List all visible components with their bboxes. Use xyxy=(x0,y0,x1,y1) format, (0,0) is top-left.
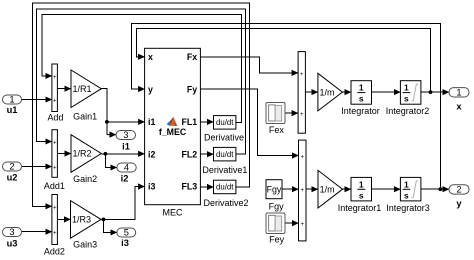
integrator Integrator xyxy=(341,81,380,116)
svg-text:u1: u1 xyxy=(7,105,18,115)
wire feedback Derivative to Add (inner loop) xyxy=(42,15,242,123)
svg-text:3: 3 xyxy=(9,227,14,237)
wire branch to outport 3 xyxy=(107,134,116,136)
svg-text:Derivative: Derivative xyxy=(204,133,244,143)
derivative Derivative1 xyxy=(202,147,247,174)
wire u3 to Add2 xyxy=(22,231,52,233)
wire MEC Fx to Add3 xyxy=(200,57,295,73)
svg-text:i3: i3 xyxy=(121,238,129,248)
svg-text:FL2: FL2 xyxy=(182,149,198,159)
wire feedback Derivative1 to Add1 (middle loop) xyxy=(36,9,245,154)
svg-text:1/m: 1/m xyxy=(320,87,335,97)
svg-text:i3: i3 xyxy=(148,182,155,192)
MATLAB function block MEC xyxy=(145,48,201,217)
wire Add2 to Gain3 xyxy=(57,218,70,220)
svg-text:du/dt: du/dt xyxy=(216,150,234,159)
svg-text:s: s xyxy=(359,190,364,200)
svg-text:3: 3 xyxy=(123,130,128,140)
step block Fex xyxy=(266,103,285,136)
svg-text:1: 1 xyxy=(9,95,14,105)
svg-text:Fgy: Fgy xyxy=(267,185,282,195)
svg-text:+: + xyxy=(300,112,304,118)
svg-text:Integrator1: Integrator1 xyxy=(338,203,382,213)
adder Add4 (y channel sum) xyxy=(299,140,307,241)
wire u2 to Add1 xyxy=(22,166,52,168)
gain 1/m (x channel) xyxy=(318,73,343,111)
wire u1 to Add xyxy=(22,99,52,101)
svg-text:Add: Add xyxy=(47,112,63,122)
wire Gain3 output to MEC i3 xyxy=(101,187,138,233)
svg-text:FL3: FL3 xyxy=(182,182,198,192)
svg-text:1: 1 xyxy=(359,179,364,189)
wire feedback x output to MEC x input xyxy=(137,29,431,93)
wire Add to Gain1 xyxy=(57,88,71,90)
svg-text:x: x xyxy=(148,52,153,62)
wire Integrator3 to outport 2 xyxy=(421,188,449,190)
svg-text:1/R2: 1/R2 xyxy=(73,149,92,159)
wire arrow into Add in1 xyxy=(45,75,52,77)
svg-text:Integrator2: Integrator2 xyxy=(386,106,430,116)
svg-text:Derivative1: Derivative1 xyxy=(202,165,247,175)
svg-text:Add1: Add1 xyxy=(44,181,65,191)
svg-text:f_MEC: f_MEC xyxy=(159,127,187,137)
wire Fey to Add4 xyxy=(285,222,299,224)
wire Integrator1 to Integrator3 xyxy=(372,188,401,190)
svg-text:+: + xyxy=(301,155,305,161)
svg-text:+: + xyxy=(53,205,57,211)
svg-text:1: 1 xyxy=(359,83,364,93)
svg-text:y: y xyxy=(148,84,153,94)
wire Fex to Add3 xyxy=(285,112,298,114)
svg-text:Fy: Fy xyxy=(187,84,197,94)
gain Gain2 1/R2 xyxy=(71,135,101,184)
wire Fgy to Add4 xyxy=(282,188,299,190)
outport 2 (y) xyxy=(449,185,469,209)
svg-text:s: s xyxy=(404,94,409,104)
svg-text:du/dt: du/dt xyxy=(216,183,234,192)
wire MEC FL1 to Derivative xyxy=(200,121,213,123)
outport 3 (i1) xyxy=(116,130,136,151)
svg-text:+: + xyxy=(53,75,57,81)
wire Gain 1/m 2 to Integrator1 xyxy=(343,188,352,190)
derivative Derivative xyxy=(204,116,244,143)
integrator Integrator3 (limited) xyxy=(386,177,430,213)
adder Add xyxy=(47,64,63,122)
wire Add1 to Gain2 xyxy=(57,153,71,155)
MATLAB logo icon xyxy=(167,117,178,126)
svg-text:5: 5 xyxy=(124,228,129,238)
svg-text:u3: u3 xyxy=(7,238,18,248)
wire feedback Derivative2 to Add2 (outer loop) xyxy=(32,3,249,206)
svg-text:+: + xyxy=(301,188,305,194)
wire arrow into MEC x port xyxy=(138,56,145,58)
adder Add3 (x channel sum) xyxy=(298,52,305,134)
integrator Integrator1 xyxy=(338,177,382,213)
svg-text:s: s xyxy=(359,94,364,104)
svg-text:2: 2 xyxy=(9,162,14,172)
svg-text:1/R3: 1/R3 xyxy=(72,215,91,225)
svg-text:Integrator3: Integrator3 xyxy=(386,203,430,213)
svg-text:Fx: Fx xyxy=(187,52,197,62)
node junction i2 xyxy=(104,152,108,156)
svg-text:u2: u2 xyxy=(7,172,18,182)
svg-text:x: x xyxy=(456,102,462,112)
svg-text:i2: i2 xyxy=(121,173,129,183)
svg-text:Fey: Fey xyxy=(269,235,285,245)
svg-text:+: + xyxy=(53,231,57,237)
integrator Integrator2 (limited) xyxy=(386,81,430,116)
wire Gain1 output to MEC i1 xyxy=(101,89,138,135)
inport 1 xyxy=(3,95,22,115)
svg-text:1: 1 xyxy=(404,83,409,93)
svg-text:Integrator: Integrator xyxy=(341,106,380,116)
svg-text:Fgy: Fgy xyxy=(269,202,285,212)
inport 2 xyxy=(3,162,22,183)
gain 1/m (y channel) xyxy=(318,170,343,208)
svg-text:1/R1: 1/R1 xyxy=(73,84,92,94)
wire Integrator2 to outport 1 xyxy=(421,91,449,93)
wire Gain2 output to MEC i2 xyxy=(101,154,138,168)
outport 5 (i3) xyxy=(117,228,136,248)
wire Gain 1/m to Integrator xyxy=(342,91,351,93)
node junction i3 xyxy=(102,218,106,222)
svg-text:y: y xyxy=(456,199,462,209)
wire feedback y output to MEC y input xyxy=(132,23,441,189)
svg-text:Add2: Add2 xyxy=(44,246,65,256)
node junction i1 xyxy=(105,120,109,124)
inport 3 xyxy=(3,227,22,248)
node junction x xyxy=(429,90,433,94)
wire MEC FL3 to Derivative2 xyxy=(200,186,213,188)
derivative Derivative2 xyxy=(203,180,248,208)
svg-text:i1: i1 xyxy=(122,141,130,151)
svg-text:+: + xyxy=(53,99,57,105)
svg-text:1: 1 xyxy=(404,179,409,189)
wire arrow into Add2 in1 xyxy=(45,205,52,207)
svg-text:Derivative2: Derivative2 xyxy=(203,198,248,208)
step block Fey xyxy=(266,213,285,245)
svg-text:+: + xyxy=(53,141,57,147)
svg-text:Gain1: Gain1 xyxy=(73,111,97,121)
svg-text:i2: i2 xyxy=(148,149,155,159)
wire arrow into outport 5 xyxy=(110,231,117,233)
svg-text:MEC: MEC xyxy=(163,208,184,218)
constant Fgy xyxy=(266,180,284,212)
wire Add4 to Gain 1/m 2 xyxy=(306,188,318,190)
wire arrow into Add1 in1 xyxy=(45,141,52,143)
wire arrow into MEC y port xyxy=(133,88,145,90)
outport 4 (i2) xyxy=(117,163,136,184)
svg-text:+: + xyxy=(53,166,57,172)
svg-text:+: + xyxy=(301,222,305,228)
svg-text:1/m: 1/m xyxy=(320,184,335,194)
wire arrow into outport 4 xyxy=(110,167,117,169)
adder Add2 xyxy=(44,195,65,257)
svg-text:1: 1 xyxy=(456,87,461,97)
gain Gain1 1/R1 xyxy=(71,70,101,121)
wire MEC FL2 to Derivative1 xyxy=(200,153,213,155)
gain Gain3 1/R3 xyxy=(71,201,102,250)
svg-text:i1: i1 xyxy=(148,117,155,127)
svg-text:2: 2 xyxy=(456,185,461,195)
svg-text:Fex: Fex xyxy=(269,125,285,135)
outport 1 (x) xyxy=(449,87,469,111)
svg-text:du/dt: du/dt xyxy=(216,118,234,127)
svg-text:FL1: FL1 xyxy=(182,117,198,127)
svg-text:Gain3: Gain3 xyxy=(73,240,97,250)
svg-text:+: + xyxy=(300,72,304,78)
wire Integrator to Integrator2 xyxy=(372,91,401,93)
adder Add1 xyxy=(44,130,65,192)
svg-text:Gain2: Gain2 xyxy=(73,174,97,184)
svg-text:4: 4 xyxy=(124,163,129,173)
svg-text:s: s xyxy=(404,190,409,200)
wire Add3 to Gain 1/m xyxy=(305,91,318,93)
wire MEC Fy to Add4 xyxy=(200,89,295,156)
node junction y xyxy=(439,187,443,191)
